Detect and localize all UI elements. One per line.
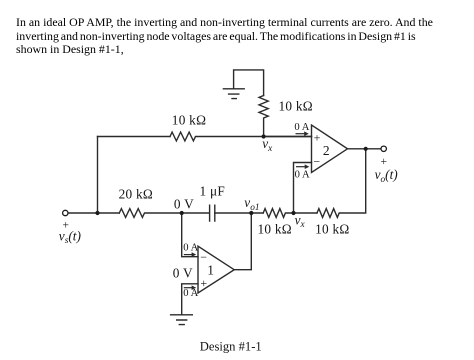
svg-text:20 kΩ: 20 kΩ <box>119 186 153 201</box>
svg-text:10 kΩ: 10 kΩ <box>172 113 206 128</box>
svg-text:0 V: 0 V <box>174 197 194 212</box>
svg-text:10 kΩ: 10 kΩ <box>279 98 313 113</box>
svg-text:vo1: vo1 <box>244 195 259 213</box>
svg-text:10 kΩ: 10 kΩ <box>315 221 349 236</box>
svg-text:+: + <box>314 130 321 144</box>
svg-text:0 V: 0 V <box>173 266 193 281</box>
svg-text:0 A: 0 A <box>183 242 198 253</box>
svg-text:+: + <box>380 156 387 168</box>
svg-text:1 μF: 1 μF <box>200 184 226 199</box>
svg-text:0 A: 0 A <box>183 288 198 299</box>
svg-text:−: − <box>313 154 320 168</box>
svg-text:0 A: 0 A <box>294 122 309 133</box>
svg-text:vs(t): vs(t) <box>59 229 82 247</box>
svg-text:+: + <box>200 276 207 290</box>
svg-text:10 kΩ: 10 kΩ <box>258 221 292 236</box>
svg-text:vo(t): vo(t) <box>375 167 399 185</box>
svg-text:2: 2 <box>323 143 330 158</box>
svg-text:vx: vx <box>262 136 273 154</box>
svg-text:vx: vx <box>295 213 306 231</box>
svg-text:0 A: 0 A <box>295 169 310 180</box>
svg-text:Design #1-1: Design #1-1 <box>200 339 262 353</box>
svg-text:1: 1 <box>207 263 214 278</box>
